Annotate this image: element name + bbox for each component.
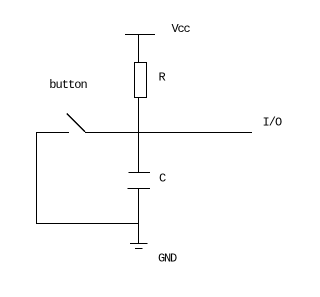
svg-text:GND: GND	[158, 252, 177, 266]
wire left vertical	[36, 132, 38, 224]
wire capacitor to ground	[138, 189, 140, 244]
svg-text:button: button	[49, 78, 87, 92]
ground bar long	[130, 243, 148, 245]
wire Vcc to resistor	[138, 35, 140, 64]
svg-text:I/O: I/O	[263, 116, 283, 130]
wire resistor to node and capacitor	[138, 98, 140, 173]
svg-text:R: R	[159, 71, 166, 85]
switch armature (diagonal)	[67, 114, 85, 132]
wire bottom horizontal	[36, 223, 139, 225]
capacitor C top plate	[129, 172, 151, 174]
switch left contact stub	[36, 132, 69, 134]
resistor R	[135, 63, 147, 98]
wire switch to I/O	[85, 132, 252, 134]
Vcc power rail bar	[125, 34, 155, 36]
ground bar short	[135, 248, 143, 250]
svg-text:C: C	[159, 172, 166, 186]
capacitor C bottom plate	[128, 188, 151, 190]
svg-text:Vcc: Vcc	[172, 22, 191, 36]
